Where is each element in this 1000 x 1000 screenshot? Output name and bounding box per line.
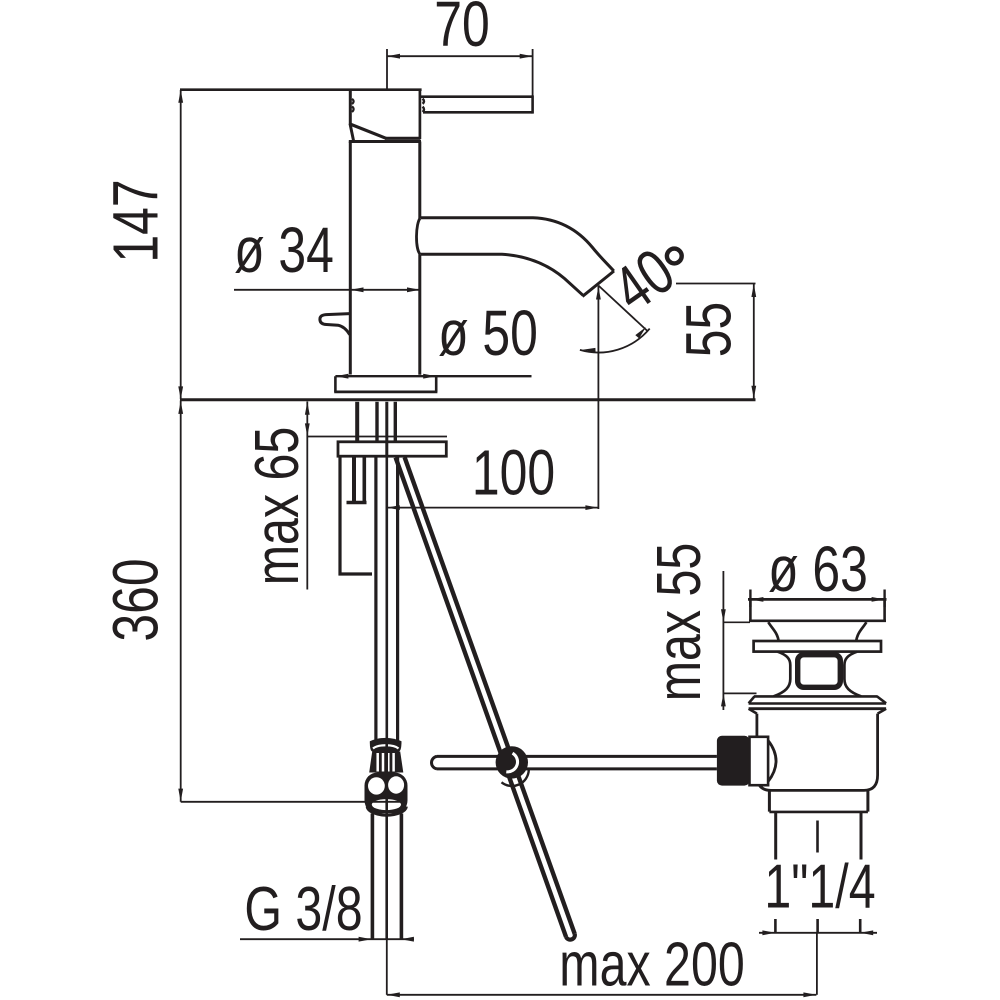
text 147 <box>101 179 172 262</box>
svg-text:55: 55 <box>674 302 745 358</box>
drain ring washer <box>754 641 881 652</box>
G3/8 threaded end <box>372 741 401 939</box>
svg-text:100: 100 <box>472 438 555 509</box>
text G3/8 <box>244 874 362 943</box>
text 70 <box>434 0 490 60</box>
svg-text:147: 147 <box>101 179 172 262</box>
counter top line <box>180 398 756 401</box>
svg-text:1"1/4: 1"1/4 <box>764 852 875 921</box>
head top extension line <box>180 88 422 91</box>
dimension 147 line <box>178 90 183 400</box>
text o63 <box>768 534 868 605</box>
svg-text:70: 70 <box>434 0 490 60</box>
supply hose <box>376 456 398 741</box>
body cylinder <box>350 142 420 375</box>
text o50 <box>438 298 538 369</box>
rod knob <box>717 736 750 786</box>
text 55 <box>674 302 745 358</box>
mounting washer bar <box>338 441 446 457</box>
rod ball joint <box>496 746 529 786</box>
svg-text:ø 63: ø 63 <box>768 534 868 605</box>
dimension 100 line <box>387 505 599 510</box>
text max65 <box>242 427 311 586</box>
dimension max55 line <box>721 571 757 710</box>
handle lever <box>421 95 533 113</box>
dimension max200 line <box>387 933 817 997</box>
text o34 <box>234 215 334 286</box>
svg-text:max 55: max 55 <box>644 543 713 702</box>
dimension 1"1/4 line <box>759 919 877 935</box>
svg-text:max 200: max 200 <box>559 930 744 999</box>
faucet head <box>349 90 424 142</box>
pop-up knob hook on body <box>320 314 350 335</box>
text max200 <box>559 930 744 999</box>
dimension 55 bracket <box>676 284 756 400</box>
dimension 360 line <box>178 401 400 802</box>
pop-up rod diagonal <box>396 457 575 939</box>
base flange + o50 dimension <box>334 374 531 392</box>
dimension G3/8 line <box>240 937 414 942</box>
hose ferrule bead <box>370 738 402 752</box>
svg-text:max 65: max 65 <box>242 427 311 586</box>
svg-text:ø 34: ø 34 <box>234 215 334 286</box>
dimension 70 line <box>387 49 533 96</box>
dimension o63 line <box>750 590 884 608</box>
drain flange <box>748 599 887 621</box>
dimension o34 line <box>234 287 420 292</box>
drain neck <box>768 622 866 640</box>
dimension max65 line <box>305 402 447 590</box>
shank below washer <box>339 456 373 575</box>
dimension 40 degree angle <box>580 286 650 510</box>
spout <box>421 218 614 297</box>
svg-text:360: 360 <box>101 558 172 641</box>
drain square hole <box>798 655 841 688</box>
drain tailpipe <box>769 790 868 859</box>
svg-text:ø 50: ø 50 <box>438 298 538 369</box>
degree ring of 40 <box>667 249 682 264</box>
hose ferrule cone <box>369 752 403 773</box>
text 360 <box>101 558 172 641</box>
G3/8 connector ball <box>365 773 408 816</box>
drain nut <box>757 714 878 791</box>
shank tubes above washer <box>357 402 395 441</box>
svg-text:G 3/8: G 3/8 <box>244 874 362 943</box>
drain spool body <box>774 652 862 697</box>
text 100 <box>472 438 555 509</box>
horizontal rod <box>431 756 716 769</box>
text 40deg <box>601 236 687 326</box>
rod socket <box>750 737 777 785</box>
drain collar <box>749 696 887 713</box>
text 1"1/4 <box>764 852 875 921</box>
text max55 <box>644 543 713 702</box>
